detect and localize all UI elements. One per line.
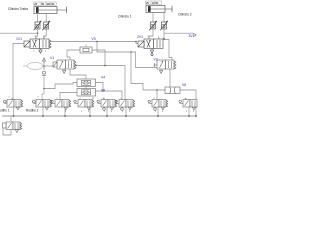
wire right edge down to bus — [195, 90, 197, 116]
valve C — [51, 98, 71, 113]
valve H — [179, 98, 197, 113]
wire valve D drop — [89, 107, 91, 116]
wire branch to shuttle V4 — [44, 83, 77, 89]
svg-text:3: 3 — [162, 111, 164, 113]
label V2 — [154, 57, 158, 61]
valve A Rodillo 1 — [3, 97, 22, 111]
valve 2V1 5/2 — [138, 36, 163, 56]
label 2V1 — [137, 35, 143, 39]
label V3 — [92, 37, 96, 41]
wire valve A drop — [13, 107, 15, 116]
junction V1 out — [75, 65, 77, 67]
wire y90 line — [143, 89, 196, 91]
junction x157 y90 — [156, 89, 158, 91]
wire valve I loop — [3, 128, 11, 135]
svg-text:2V1: 2V1 — [137, 35, 143, 39]
svg-text:1: 1 — [33, 51, 35, 53]
label V1 — [50, 56, 54, 60]
svg-text:V5: V5 — [101, 89, 105, 93]
wire valve E drop — [106, 107, 108, 116]
valve V2 3/2 — [154, 60, 177, 73]
svg-text:100: 100 — [46, 2, 51, 6]
valve V1 3/2 — [53, 60, 76, 73]
wire valve C drop — [64, 107, 66, 116]
label V5 — [101, 89, 105, 93]
svg-text:V3: V3 — [92, 37, 96, 41]
svg-text:2: 2 — [9, 97, 11, 99]
flow control valve 2B — [160, 21, 168, 30]
wire V6 top to V2 bottom — [169, 69, 171, 87]
wire 1V1 pilot to Rodillo1 — [13, 44, 24, 100]
svg-text:2: 2 — [158, 36, 160, 38]
wire flow 1B to valve 1V1 — [44, 29, 46, 39]
label 1V1 — [16, 37, 22, 41]
label Cilindro 1 — [118, 15, 132, 19]
wire V2 top to 2V1 — [163, 40, 172, 61]
svg-text:1: 1 — [104, 111, 106, 113]
shuttle valve V4 — [77, 79, 96, 87]
wire to valve F top — [103, 91, 122, 100]
flow control valve 1A — [34, 21, 42, 30]
wire cylinder A2 left port — [152, 13, 154, 22]
wire signal to 3V1 arrow — [164, 33, 197, 36]
svg-text:1: 1 — [58, 111, 60, 113]
svg-text:Cilindro Traba: Cilindro Traba — [8, 7, 28, 11]
cylinder A1 quantity label — [34, 2, 56, 6]
svg-text:V1: V1 — [50, 56, 54, 60]
wire valve F drop — [125, 107, 127, 116]
wire flow 2B to 2V1 — [163, 29, 164, 40]
svg-text:3: 3 — [193, 111, 195, 113]
cylinder A2 — [146, 6, 172, 13]
wire throttle right down — [92, 50, 105, 66]
svg-text:V4: V4 — [101, 75, 105, 79]
wire cylinder A1 left port — [37, 14, 39, 23]
valve E — [97, 98, 117, 113]
check valve below junction — [42, 66, 46, 100]
junction x164 y33 — [163, 38, 165, 40]
svg-text:1: 1 — [122, 111, 124, 113]
wire V5 left to valve C top — [60, 93, 77, 100]
reservoir ellipse — [23, 62, 43, 69]
svg-text:1: 1 — [81, 111, 83, 113]
wire cylinder A2 right port — [163, 13, 165, 22]
svg-text:3: 3 — [45, 51, 47, 53]
junction x105 — [104, 65, 106, 67]
valve F — [115, 98, 135, 113]
wire V4 right to V5 right — [96, 83, 104, 92]
junction x103 y91 — [102, 90, 104, 92]
svg-text:3: 3 — [129, 111, 131, 113]
flow control valve 1B — [42, 21, 50, 30]
wire W1 1V1 to 2V1 pilot — [49, 42, 138, 44]
svg-text:1: 1 — [155, 111, 157, 113]
wire ellipse to V1 — [43, 65, 57, 67]
valve 1V1 5/2 — [24, 36, 51, 53]
svg-text:V6: V6 — [182, 83, 186, 87]
svg-text:Rodillo 2: Rodillo 2 — [26, 109, 39, 113]
svg-text:2: 2 — [43, 36, 45, 38]
svg-text:3: 3 — [111, 111, 113, 113]
svg-text:Rodillo 1: Rodillo 1 — [0, 109, 10, 113]
junction W1 x97 — [96, 41, 98, 43]
wire V1 bottom to V4 top — [70, 69, 86, 79]
bus junction dots — [13, 115, 197, 117]
vent stub above junction — [43, 58, 46, 66]
label 3V1 — [189, 34, 195, 38]
junction W1 x136 — [135, 41, 137, 43]
label V6 — [182, 83, 186, 87]
svg-text:Cilindro 2: Cilindro 2 — [178, 13, 192, 17]
valve B Rodillo 2 — [32, 97, 51, 111]
label Rodillo 1 — [0, 109, 10, 113]
wire signal to left edge — [0, 32, 38, 34]
wire V1 out to x125 — [76, 65, 125, 67]
junction x37.5 y33 — [37, 32, 39, 34]
shuttle valve V5 — [77, 89, 96, 97]
wire cylinder A1 right port — [45, 14, 47, 23]
wire V4 bottom to V5 top — [85, 87, 87, 89]
throttle valve V6 — [165, 87, 180, 94]
svg-text:3V1: 3V1 — [189, 34, 195, 38]
wire x125 vertical V1out to valve F — [124, 66, 126, 100]
valve G — [148, 98, 168, 113]
junction x44 — [43, 65, 45, 67]
label V4 — [101, 75, 105, 79]
junction x131 y52 — [130, 51, 132, 53]
flow control valve 2A — [149, 21, 157, 30]
svg-text:Cilindro 1: Cilindro 1 — [118, 15, 132, 19]
valve D — [74, 97, 94, 113]
wire valve B drop — [42, 107, 44, 116]
svg-text:1V1: 1V1 — [16, 37, 22, 41]
wire throttle left to V1 top — [67, 50, 80, 60]
junction x44 y88 — [43, 88, 45, 90]
wire flow 1A to valve 1V1 — [36, 29, 38, 39]
wire drop to valve G — [156, 90, 158, 100]
supply bus — [2, 115, 197, 117]
throttle valve V3 — [80, 45, 92, 54]
valve I bottom-left 3/2 — [3, 122, 22, 133]
wire valve H drop — [188, 107, 190, 116]
svg-text:1: 1 — [186, 111, 188, 113]
wire flow 2A to 2V1 — [149, 29, 153, 39]
label Cilindro 2 — [178, 13, 192, 17]
cylinder A1 (Cilindro Traba) — [34, 7, 67, 14]
wire W2 to valve V2 — [97, 42, 157, 68]
label Cilindro Traba — [8, 7, 28, 11]
wire bus to valve I — [10, 116, 12, 122]
wire valve G drop — [157, 107, 159, 116]
label Rodillo 2 — [26, 109, 39, 113]
svg-text:2: 2 — [38, 97, 40, 99]
cylinder A2 quantity label — [146, 1, 162, 5]
wire W1 branch down to y90 line — [131, 52, 143, 90]
